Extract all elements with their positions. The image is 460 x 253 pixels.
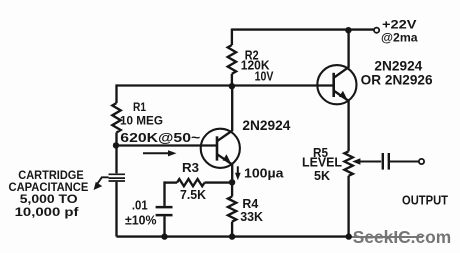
svg-text:2N2924: 2N2924 — [242, 118, 290, 133]
svg-text:2N2924: 2N2924 — [374, 58, 422, 73]
svg-text:SeekIC.com: SeekIC.com — [353, 227, 451, 247]
svg-text:LEVEL: LEVEL — [302, 155, 342, 169]
svg-text:R3: R3 — [182, 160, 199, 175]
svg-text:7.5K: 7.5K — [180, 187, 207, 202]
svg-text:±10%: ±10% — [125, 212, 157, 227]
svg-text:+22V: +22V — [382, 17, 417, 31]
svg-text:10V: 10V — [255, 69, 274, 83]
svg-text:10 MEG: 10 MEG — [120, 114, 163, 128]
svg-text:@2ma: @2ma — [381, 30, 418, 44]
svg-text:5K: 5K — [314, 169, 330, 183]
svg-text:OUTPUT: OUTPUT — [402, 193, 448, 207]
svg-text:620K@50~: 620K@50~ — [120, 130, 200, 145]
svg-text:100µa: 100µa — [244, 165, 284, 180]
svg-text:33K: 33K — [240, 209, 263, 224]
svg-text:OR 2N2926: OR 2N2926 — [361, 73, 433, 88]
svg-text:.01: .01 — [132, 198, 148, 213]
svg-text:R1: R1 — [133, 100, 146, 114]
svg-text:10,000 pf: 10,000 pf — [15, 205, 80, 219]
